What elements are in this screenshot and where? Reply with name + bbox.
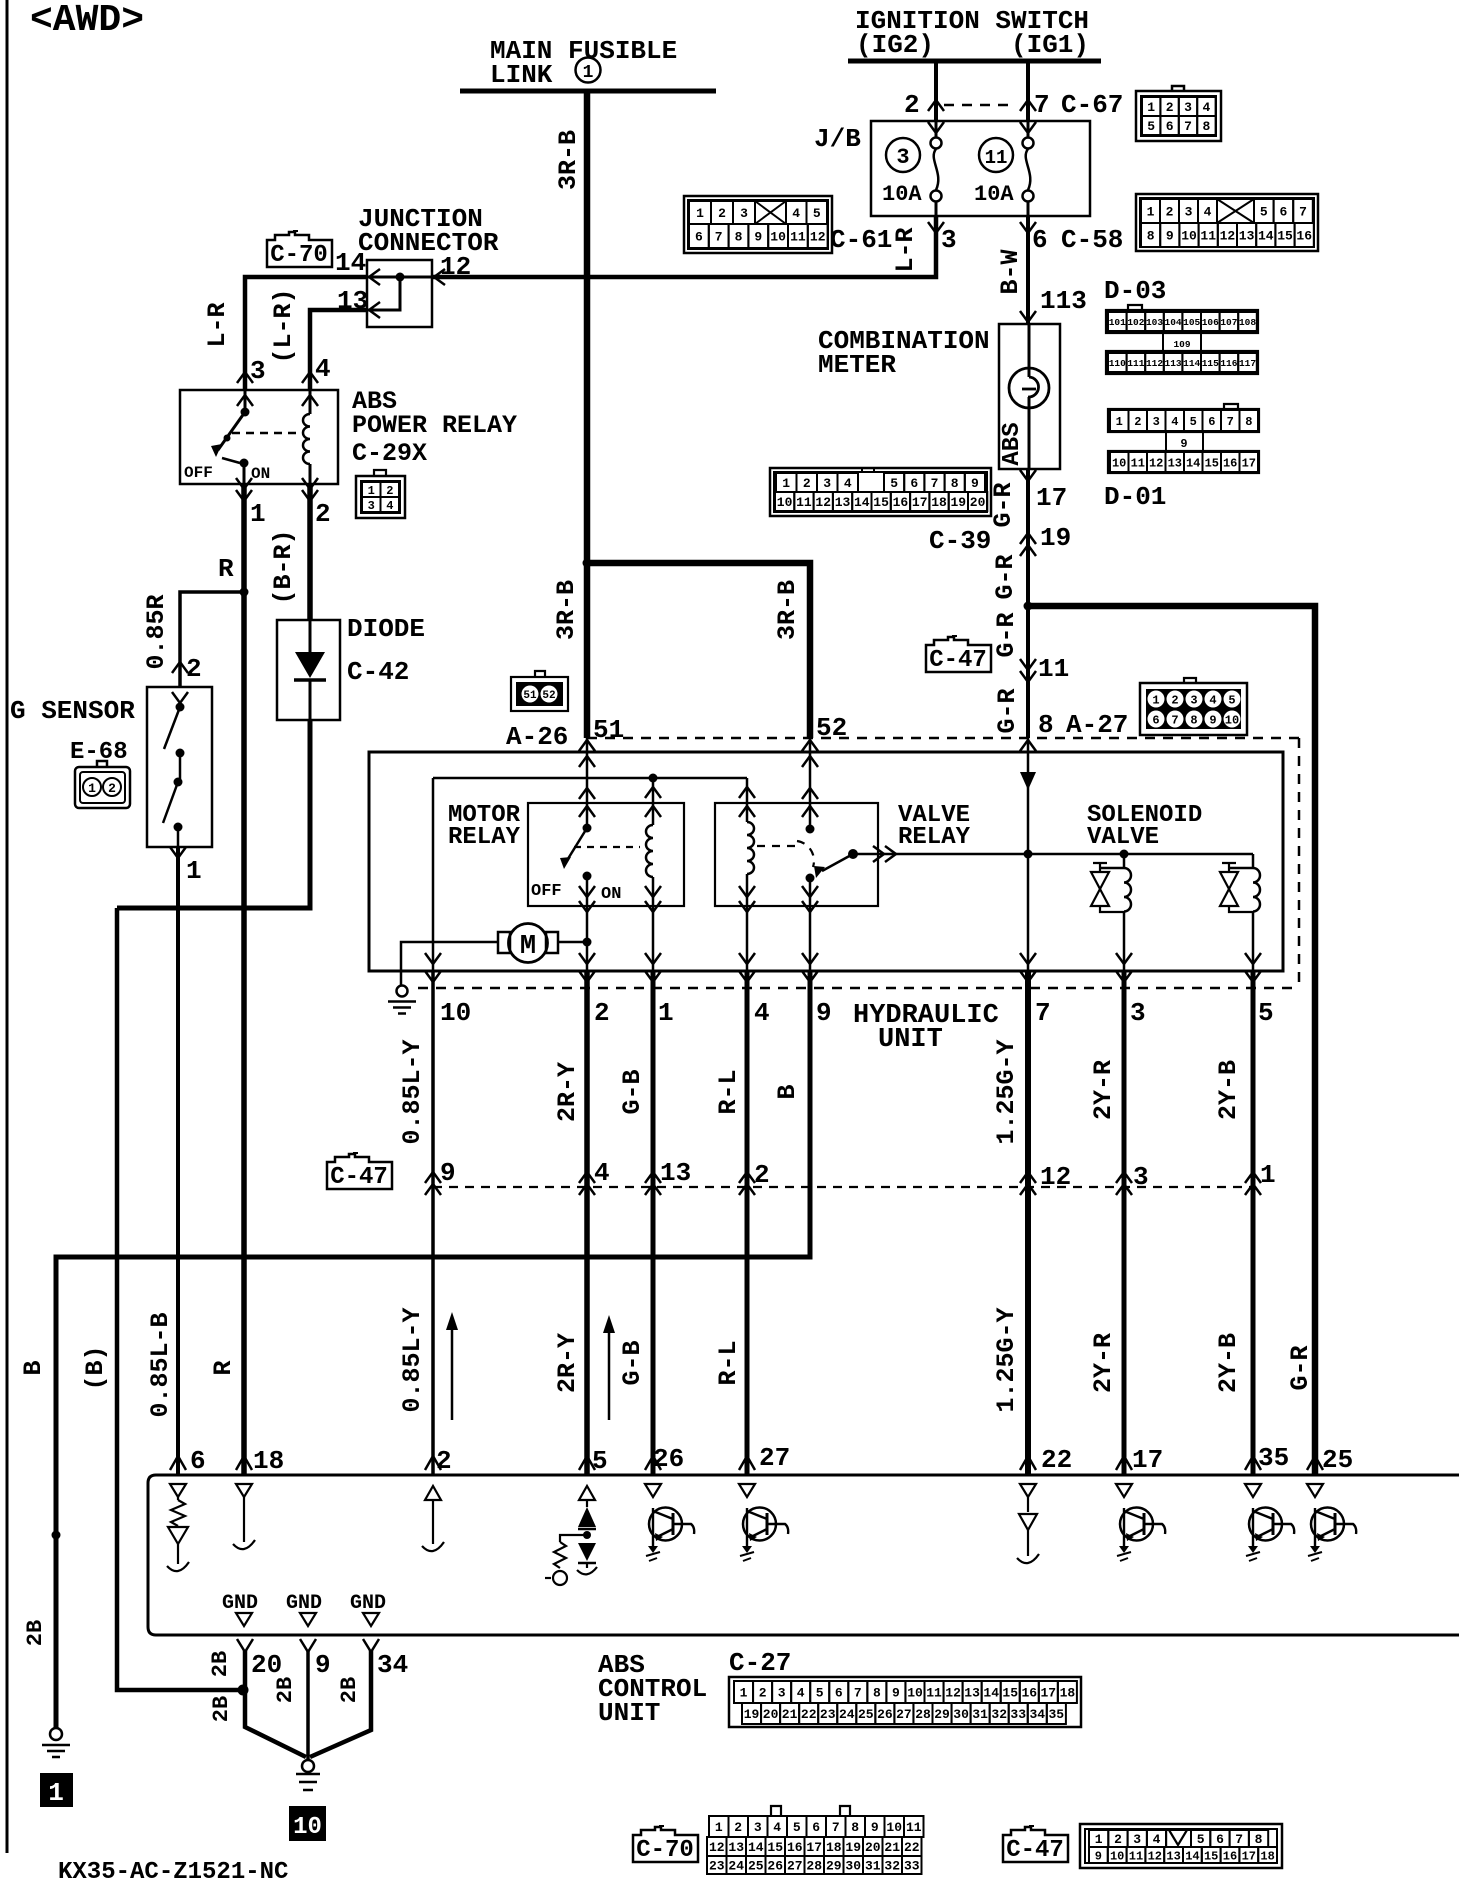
svg-text:107: 107: [1220, 317, 1237, 328]
svg-text:11: 11: [985, 147, 1008, 169]
node solenoid 1: [1120, 850, 1129, 859]
node motor relay coil feed: [649, 774, 658, 783]
connector A-27 grid: [1140, 683, 1247, 735]
svg-text:15: 15: [1205, 456, 1219, 470]
svg-text:21: 21: [884, 1840, 900, 1855]
svg-text:C-42: C-42: [347, 657, 409, 687]
svg-text:2: 2: [754, 1160, 770, 1190]
svg-text:11: 11: [790, 230, 806, 245]
connector C-70 grid: [771, 1806, 781, 1816]
ground (motor): [397, 986, 408, 997]
svg-text:0.85L-Y: 0.85L-Y: [398, 1039, 427, 1144]
G sensor internal switch: [172, 692, 188, 703]
svg-text:5: 5: [1260, 205, 1268, 220]
svg-text:2: 2: [904, 90, 920, 120]
svg-text:11: 11: [1129, 1849, 1143, 1863]
svg-text:G-R: G-R: [993, 688, 1022, 733]
svg-text:23: 23: [709, 1859, 725, 1874]
svg-text:C-61: C-61: [830, 225, 892, 255]
main fusible link bus bar: [460, 89, 716, 94]
wire B pin9 to collector: [56, 971, 810, 1728]
svg-text:7: 7: [1235, 1832, 1243, 1847]
svg-text:2: 2: [734, 1820, 742, 1835]
svg-text:4: 4: [844, 476, 852, 491]
valve relay output arrows: [853, 853, 878, 856]
svg-text:(IG1): (IG1): [1011, 30, 1089, 60]
svg-text:1: 1: [696, 206, 704, 221]
connector symbol A-26: [511, 677, 568, 711]
wire R-L pin4 to ABS pin 27: [745, 971, 750, 1474]
wire pin52 into valve relay switch: [809, 738, 812, 829]
svg-text:3: 3: [1133, 1162, 1149, 1192]
junction block J/B box: [871, 121, 1090, 216]
pin 1 arrow (relay out): [236, 478, 252, 489]
svg-text:C-47: C-47: [1006, 1837, 1064, 1864]
pin 3 (C-61): [928, 222, 944, 233]
svg-text:C-29X: C-29X: [352, 439, 427, 468]
svg-text:2B: 2B: [337, 1677, 362, 1703]
connector line bottom (dashed): [418, 987, 1299, 990]
svg-text:15: 15: [1277, 229, 1293, 244]
svg-text:106: 106: [1202, 317, 1219, 328]
svg-text:15: 15: [1204, 1849, 1218, 1863]
relay coil (ABS power relay): [302, 395, 318, 406]
wire pin 7 down: [1027, 854, 1030, 971]
svg-text:0.85L-B: 0.85L-B: [146, 1312, 175, 1417]
svg-text:13: 13: [1239, 229, 1255, 244]
svg-text:3: 3: [823, 476, 831, 491]
svg-text:7: 7: [1035, 998, 1051, 1028]
wire 3R-B from main fusible link: [584, 91, 591, 563]
wire 1.25G-Y pin7 to ABS pin 22: [1025, 971, 1031, 1474]
wire R down to ABS unit pin 18: [241, 592, 247, 1474]
svg-text:9: 9: [315, 1650, 331, 1680]
fuse 3 element (10A): [935, 121, 938, 138]
svg-text:8: 8: [1038, 710, 1054, 740]
svg-text:9: 9: [1166, 229, 1174, 244]
ignition switch bus bar: [848, 59, 1101, 64]
wire L-R junction connector pin14 to relay pin 3: [245, 277, 367, 390]
svg-text:6: 6: [190, 1446, 206, 1476]
svg-text:2: 2: [108, 781, 116, 796]
svg-text:9: 9: [440, 1158, 456, 1188]
svg-text:12: 12: [810, 230, 826, 245]
J/B entry arrows: [928, 122, 944, 133]
svg-text:10: 10: [1112, 456, 1126, 470]
svg-text:4: 4: [1153, 1832, 1161, 1847]
svg-text:GND: GND: [350, 1592, 386, 1615]
svg-text:A-26: A-26: [506, 722, 568, 752]
svg-text:14: 14: [1185, 1849, 1199, 1863]
ABS internal pin26 (transistor): [645, 1484, 661, 1497]
svg-text:8: 8: [951, 476, 959, 491]
svg-text:11: 11: [926, 1686, 942, 1701]
svg-text:D-03: D-03: [1104, 276, 1166, 306]
wire 3R-B to pin 51: [584, 563, 591, 738]
svg-text:16: 16: [1021, 1686, 1037, 1701]
svg-text:14: 14: [1258, 229, 1274, 244]
svg-text:5: 5: [592, 1446, 608, 1476]
svg-text:3: 3: [1185, 205, 1193, 220]
svg-text:15: 15: [873, 495, 889, 510]
svg-text:33: 33: [904, 1859, 920, 1874]
wire 0.85L-B G sensor to ABS unit pin 6: [176, 847, 180, 1474]
svg-text:15: 15: [1002, 1686, 1018, 1701]
svg-text:1: 1: [658, 998, 674, 1028]
svg-text:3: 3: [1153, 415, 1160, 429]
svg-text:M: M: [520, 932, 536, 962]
svg-text:28: 28: [806, 1859, 822, 1874]
svg-text:4: 4: [773, 1820, 781, 1835]
svg-text:C-70: C-70: [270, 242, 328, 269]
wire motor to ground: [401, 942, 498, 985]
svg-text:2B: 2B: [208, 1651, 233, 1677]
svg-text:POWER RELAY: POWER RELAY: [352, 411, 517, 440]
svg-text:3: 3: [368, 499, 375, 513]
svg-text:RELAY: RELAY: [898, 824, 971, 851]
svg-text:2: 2: [315, 499, 331, 529]
svg-text:5: 5: [793, 1820, 801, 1835]
pin 14 arrow: [369, 269, 380, 285]
svg-text:LINK: LINK: [490, 60, 553, 90]
svg-text:8: 8: [1245, 415, 1252, 429]
svg-text:22: 22: [801, 1707, 817, 1722]
connector C-67 crossing (dashed): [944, 104, 1016, 107]
solenoid valve 2: [1252, 854, 1255, 868]
wire motor relay sw to pin 2: [586, 906, 589, 971]
valve relay link (dashed): [757, 845, 795, 847]
junction connector internal wire + node: [396, 273, 405, 282]
svg-text:34: 34: [377, 1650, 408, 1680]
wire 2B pin20: [245, 1650, 306, 1757]
node motor/pin2: [583, 938, 592, 947]
svg-text:7: 7: [931, 476, 939, 491]
svg-text:1: 1: [368, 484, 375, 498]
svg-text:35: 35: [1048, 1707, 1064, 1722]
svg-text:10: 10: [440, 998, 471, 1028]
svg-text:2: 2: [759, 1686, 767, 1701]
svg-text:4: 4: [754, 998, 770, 1028]
svg-text:3: 3: [1133, 1832, 1141, 1847]
svg-text:5: 5: [1197, 1832, 1205, 1847]
svg-text:26: 26: [767, 1859, 783, 1874]
pin 6 (C-58): [1020, 222, 1036, 233]
connector line C-47 (dashed): [433, 1186, 1254, 1188]
svg-text:114: 114: [1183, 358, 1200, 369]
svg-text:52: 52: [816, 713, 847, 743]
svg-text:(B-R): (B-R): [269, 529, 298, 604]
svg-text:B-W: B-W: [996, 249, 1025, 294]
svg-text:6: 6: [910, 476, 918, 491]
svg-text:1: 1: [1260, 1160, 1276, 1190]
svg-text:18: 18: [1060, 1686, 1076, 1701]
svg-text:2Y-B: 2Y-B: [1214, 1333, 1243, 1393]
svg-text:14: 14: [1186, 456, 1200, 470]
svg-text:GND: GND: [286, 1592, 322, 1615]
svg-text:2Y-B: 2Y-B: [1214, 1060, 1243, 1120]
svg-text:103: 103: [1146, 317, 1163, 328]
pin 52 (A-26): [802, 740, 818, 751]
svg-text:7: 7: [1184, 119, 1192, 134]
wire (B) down to 2B join: [117, 908, 243, 1690]
svg-text:1: 1: [740, 1686, 748, 1701]
svg-text:6: 6: [1279, 205, 1287, 220]
pin 17 (D-01): [1020, 470, 1036, 481]
svg-text:26: 26: [653, 1444, 684, 1474]
svg-text:6: 6: [1166, 119, 1174, 134]
ground (B wire): [50, 1728, 62, 1740]
svg-text:C-27: C-27: [729, 1648, 791, 1678]
svg-text:B: B: [19, 1360, 48, 1375]
svg-text:KX35-AC-Z1521-NC: KX35-AC-Z1521-NC: [58, 1859, 288, 1886]
svg-text:3R-B: 3R-B: [552, 580, 581, 640]
ABS internal pin5 (diodes+resistor): [579, 1486, 595, 1500]
connector C-27 grid: [729, 1677, 1081, 1727]
svg-text:2: 2: [1134, 415, 1141, 429]
svg-text:20: 20: [865, 1840, 881, 1855]
diode C-42 box: [277, 620, 340, 720]
combination meter box: [999, 324, 1060, 469]
svg-text:7: 7: [1171, 714, 1178, 728]
wire IG1 to J/B: [1026, 61, 1030, 121]
svg-text:C-70: C-70: [636, 1837, 694, 1864]
svg-text:9: 9: [754, 230, 762, 245]
wire G-R meter to node: [1026, 469, 1030, 738]
wire 2B pin9: [306, 1650, 310, 1759]
ABS internal pin6 (resistor): [170, 1484, 186, 1497]
svg-text:G-R: G-R: [992, 612, 1021, 657]
svg-text:6: 6: [695, 230, 703, 245]
svg-text:6: 6: [1032, 225, 1048, 255]
motor relay feed rail: [433, 777, 747, 780]
svg-text:25: 25: [748, 1859, 764, 1874]
connector C-39 grid: [770, 468, 991, 516]
svg-text:16: 16: [787, 1840, 803, 1855]
wire valve coil to pin 4: [746, 906, 749, 971]
svg-text:J/B: J/B: [814, 124, 861, 154]
svg-text:7: 7: [854, 1686, 862, 1701]
svg-text:18: 18: [826, 1840, 842, 1855]
node solenoid rail/pin7: [1024, 850, 1033, 859]
ABS internal pin2 (up arrow): [425, 1486, 441, 1500]
node 2B join from (B): [238, 1685, 249, 1696]
svg-text:2: 2: [1166, 100, 1174, 115]
svg-text:17: 17: [806, 1840, 822, 1855]
svg-text:B: B: [773, 1084, 802, 1099]
svg-text:29: 29: [934, 1707, 950, 1722]
svg-text:7: 7: [832, 1820, 840, 1835]
svg-text:DIODE: DIODE: [347, 614, 425, 644]
svg-text:4: 4: [1204, 205, 1212, 220]
svg-text:27: 27: [787, 1859, 803, 1874]
svg-text:16: 16: [893, 495, 909, 510]
svg-text:17: 17: [1040, 1686, 1056, 1701]
svg-text:3: 3: [896, 145, 909, 170]
wire diode to (B) jog: [117, 720, 310, 908]
svg-text:13: 13: [728, 1840, 744, 1855]
svg-text:RELAY: RELAY: [448, 824, 521, 851]
pin 13 arrow: [369, 302, 380, 318]
main fusible link circled 1: [576, 58, 601, 83]
svg-text:12: 12: [1040, 1162, 1071, 1192]
svg-text:14: 14: [335, 248, 366, 278]
svg-text:1: 1: [583, 63, 594, 83]
fuse 11 element (10A): [1027, 121, 1030, 138]
wire 0.85L-Y pin10 to ABS pin 2: [431, 971, 435, 1474]
svg-text:29: 29: [826, 1859, 842, 1874]
svg-text:9: 9: [816, 998, 832, 1028]
svg-text:17: 17: [1242, 1849, 1256, 1863]
svg-text:10A: 10A: [882, 182, 922, 207]
connector symbol C-47 (upper): [926, 637, 991, 672]
svg-text:2R-Y: 2R-Y: [553, 1333, 582, 1393]
svg-text:VALVE: VALVE: [1087, 824, 1159, 851]
svg-text:27: 27: [896, 1707, 912, 1722]
svg-text:6: 6: [1152, 714, 1159, 728]
connector D-03 grid: [1128, 305, 1142, 310]
connector symbol C-47 (middle): [327, 1154, 392, 1189]
svg-text:11: 11: [1038, 654, 1069, 684]
svg-text:33: 33: [1010, 1707, 1026, 1722]
wire pin51 into motor relay switch: [586, 738, 589, 803]
svg-text:116: 116: [1220, 358, 1237, 369]
pin 11 (C-47 crossing): [1020, 659, 1036, 670]
ABS internal pin22: [1020, 1484, 1036, 1497]
svg-text:30: 30: [953, 1707, 969, 1722]
svg-text:GND: GND: [222, 1592, 258, 1615]
svg-text:1: 1: [1095, 1832, 1103, 1847]
wire 2R-Y pin2 to ABS pin 5: [584, 971, 590, 1474]
svg-text:2: 2: [436, 1446, 452, 1476]
svg-text:METER: METER: [818, 350, 896, 380]
svg-text:7: 7: [1299, 205, 1307, 220]
ABS internal pin27 (transistor): [739, 1484, 755, 1497]
svg-text:13: 13: [1166, 1849, 1180, 1863]
pin 2 arrow (G sensor): [172, 662, 188, 673]
connector symbol C-47 (bottom): [1003, 1827, 1068, 1862]
svg-text:12: 12: [1220, 229, 1236, 244]
svg-text:0.85R: 0.85R: [142, 594, 171, 669]
svg-text:27: 27: [759, 1443, 790, 1473]
svg-text:18: 18: [931, 495, 947, 510]
hydraulic exit arrows: [425, 953, 441, 964]
svg-text:2: 2: [1166, 205, 1174, 220]
svg-text:8: 8: [1255, 1832, 1263, 1847]
wire valve sw to pin 9: [809, 906, 812, 971]
svg-text:35: 35: [1258, 1443, 1289, 1473]
fuse 11 circled number: [979, 138, 1013, 172]
svg-text:14: 14: [983, 1686, 999, 1701]
svg-text:16: 16: [1296, 229, 1312, 244]
svg-text:34: 34: [1029, 1707, 1045, 1722]
svg-text:3: 3: [1130, 998, 1146, 1028]
svg-text:108: 108: [1239, 317, 1256, 328]
connector C-61 grid: [684, 196, 832, 253]
ABS internal pin18: [236, 1484, 252, 1497]
svg-text:18: 18: [253, 1446, 284, 1476]
svg-text:6: 6: [1216, 1832, 1224, 1847]
svg-text:2: 2: [386, 484, 393, 498]
svg-text:4: 4: [594, 1158, 610, 1188]
svg-text:2: 2: [1114, 1832, 1122, 1847]
node 3R-B split: [583, 559, 592, 568]
svg-text:10: 10: [770, 230, 786, 245]
svg-text:25: 25: [1322, 1445, 1353, 1475]
svg-text:7: 7: [1034, 90, 1050, 120]
svg-text:3R-B: 3R-B: [554, 130, 583, 190]
svg-text:2B: 2B: [273, 1677, 298, 1703]
svg-text:32: 32: [884, 1859, 900, 1874]
svg-text:20: 20: [763, 1707, 779, 1722]
svg-text:8: 8: [873, 1686, 881, 1701]
GND pin arrows: [237, 1639, 253, 1652]
svg-text:10: 10: [886, 1820, 902, 1835]
svg-text:R-L: R-L: [714, 1340, 743, 1385]
wire 0.85R branch to G sensor: [180, 592, 244, 687]
wire IG2 to J/B: [934, 61, 938, 121]
svg-text:C-47: C-47: [330, 1164, 388, 1191]
svg-text:1: 1: [1116, 415, 1123, 429]
svg-text:1: 1: [88, 781, 96, 796]
svg-text:2Y-R: 2Y-R: [1089, 1333, 1118, 1393]
svg-text:2: 2: [803, 476, 811, 491]
svg-text:12: 12: [709, 1840, 725, 1855]
svg-text:10: 10: [293, 1814, 322, 1841]
svg-text:ON: ON: [601, 885, 621, 904]
node G-R branch: [1024, 602, 1033, 611]
svg-text:1: 1: [1147, 205, 1155, 220]
svg-text:32: 32: [991, 1707, 1007, 1722]
svg-text:17: 17: [1242, 456, 1256, 470]
pin 4 (C-47): [579, 1172, 595, 1183]
svg-text:11: 11: [1131, 456, 1145, 470]
motor relay link (dashed): [574, 846, 640, 848]
ABS internal pin17 (transistor): [1116, 1484, 1132, 1497]
svg-text:5: 5: [890, 476, 898, 491]
svg-text:0.85L-Y: 0.85L-Y: [398, 1307, 427, 1412]
pin 19 (C-39 crossing): [1020, 533, 1036, 544]
svg-text:10: 10: [777, 495, 793, 510]
wire motor to relay node: [558, 941, 587, 944]
svg-text:113: 113: [1040, 286, 1087, 316]
solenoid valve 1: [1123, 854, 1126, 868]
svg-text:3: 3: [1190, 694, 1197, 708]
wire 2B pin34: [310, 1650, 371, 1757]
svg-text:7: 7: [715, 230, 723, 245]
GND triangles: [236, 1613, 252, 1626]
svg-text:ABS: ABS: [999, 422, 1026, 465]
wire coil to pin 1: [652, 906, 655, 971]
wire 2Y-B pin5 to ABS pin 35: [1251, 971, 1256, 1474]
svg-text:4: 4: [792, 206, 800, 221]
svg-text:14: 14: [748, 1840, 764, 1855]
svg-text:102: 102: [1127, 317, 1144, 328]
svg-text:1: 1: [250, 499, 266, 529]
svg-text:9: 9: [1095, 1849, 1102, 1863]
svg-text:1: 1: [48, 1778, 64, 1808]
wire pin 10 rail down: [432, 778, 435, 971]
svg-text:13: 13: [660, 1158, 691, 1188]
svg-text:C-58: C-58: [1061, 225, 1123, 255]
svg-text:2B: 2B: [23, 1620, 48, 1646]
svg-text:9: 9: [1209, 714, 1216, 728]
svg-text:3: 3: [250, 356, 266, 386]
svg-text:6: 6: [812, 1820, 820, 1835]
svg-text:4: 4: [1209, 694, 1216, 708]
frame: page border line (left edge): [6, 0, 9, 1853]
svg-text:A-27: A-27: [1066, 710, 1128, 740]
svg-text:31: 31: [865, 1859, 881, 1874]
